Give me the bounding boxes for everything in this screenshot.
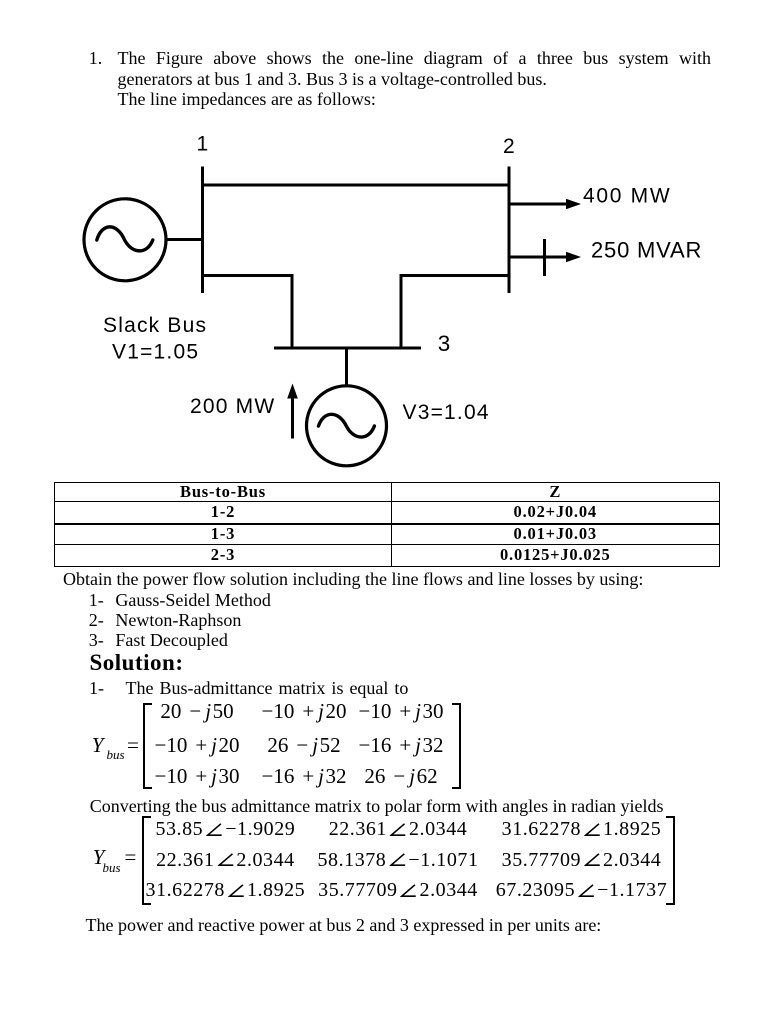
matrix Ybus rectangular: label Y (92, 735, 104, 756)
label bus subscript (107, 748, 125, 761)
svg-text:200 MW: 200 MW (190, 395, 275, 418)
paragraph line 1 (118, 49, 712, 67)
wire generator G2 lead (345, 348, 348, 385)
matrix m2 r1c1 (155, 819, 295, 839)
left bracket (143, 703, 152, 789)
svg-text:2: 2 (503, 135, 515, 158)
matrix m1 r1c1 (160, 701, 233, 722)
svg-text:3: 3 (438, 331, 451, 356)
bus 1 (vertical bar) (201, 167, 204, 294)
matrix m2 r3c1 (146, 880, 306, 900)
svg-text:V1=1.05: V1=1.05 (112, 341, 199, 364)
paragraph line 2 (118, 70, 547, 88)
list item 1 (89, 591, 271, 609)
bus 2 (vertical bar) (508, 167, 511, 294)
right bracket (666, 816, 675, 905)
matrix m1 r2c1 (154, 735, 239, 756)
text: obtain (63, 570, 643, 588)
equals sign (125, 847, 137, 868)
wire line 1-2 (201, 184, 511, 187)
load arrow 400 MW shaft (509, 203, 568, 206)
matrix m1 r3c3 (364, 766, 437, 787)
matrix m2 r3c3 (496, 880, 668, 900)
svg-text:V3=1.04: V3=1.04 (403, 401, 490, 424)
wire generator G1 lead (167, 238, 203, 241)
matrix m1 r1c3 (358, 701, 443, 722)
injection arrow 200 MW head (287, 384, 298, 399)
generator G2 sine wave (319, 414, 375, 437)
generator G3 injection arrow shaft (291, 397, 294, 439)
load arrow 250 MVAR shaft (509, 256, 568, 259)
right bracket (452, 703, 461, 789)
impedance table (54, 482, 720, 568)
bus 3 (horizontal bar) (274, 347, 421, 350)
load arrow 400 MW head (566, 199, 581, 210)
paragraph number 1. (89, 49, 103, 67)
text: item 1 bus admittance (89, 679, 408, 697)
matrix m1 r3c2 (261, 766, 346, 787)
left bracket (142, 816, 151, 905)
matrix m1 r3c1 (154, 766, 239, 787)
matrix m1 r2c3 (358, 735, 443, 756)
text: final line (86, 916, 602, 934)
svg-text:250 MVAR: 250 MVAR (591, 238, 702, 263)
generator G1 sine wave (97, 227, 153, 251)
paragraph line 3 (118, 90, 376, 108)
matrix m2 r1c3 (502, 819, 662, 839)
matrix m1 r1c2 (261, 701, 346, 722)
matrix m1 r2c2 (267, 735, 340, 756)
matrix m2 r2c2 (318, 850, 479, 870)
matrix m2 r1c2 (329, 819, 468, 839)
matrix m2 r2c3 (502, 850, 662, 870)
load arrow 250 MVAR head (566, 252, 581, 263)
svg-text:1: 1 (197, 133, 209, 156)
generator G1 circle (84, 199, 166, 281)
matrix m2 r3c2 (318, 880, 478, 900)
list item 2 (89, 611, 242, 629)
svg-text:Slack Bus: Slack Bus (103, 314, 207, 337)
wire line 1-3 (203, 276, 293, 347)
capacitor tick on 250 MVAR line (543, 239, 546, 276)
heading Solution: (90, 651, 184, 674)
equals sign (127, 735, 139, 756)
svg-text:400 MW: 400 MW (583, 184, 671, 207)
list item 3 (89, 631, 228, 649)
one-line diagram (0, 0, 769, 480)
label bus subscript (103, 861, 121, 874)
matrix Ybus polar: label Y (93, 847, 105, 868)
generator G2 circle (307, 386, 387, 466)
wire line 2-3 (401, 276, 509, 347)
text: converting (90, 797, 664, 815)
matrix m2 r2c1 (156, 850, 295, 870)
